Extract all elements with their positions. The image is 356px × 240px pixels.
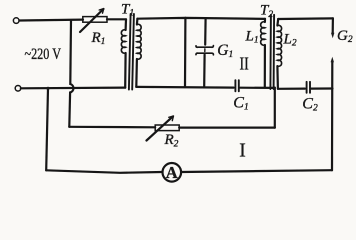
svg-text:II: II [240,53,249,73]
svg-text:A: A [166,163,178,182]
svg-text:~220 V: ~220 V [25,46,62,63]
svg-text:I: I [239,141,246,162]
